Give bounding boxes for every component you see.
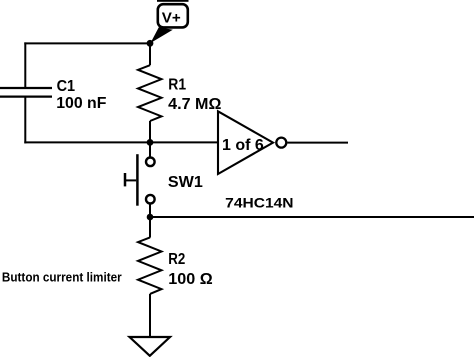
- wire middle horizontal: [24, 141, 218, 143]
- svg-text:1 of 6: 1 of 6: [222, 137, 264, 154]
- node V+ junction: [147, 40, 154, 47]
- node middle junction: [147, 139, 154, 146]
- ground: [130, 337, 171, 356]
- svg-text:100 nF: 100 nF: [56, 95, 106, 112]
- wire left vertical upper: [24, 42, 26, 88]
- svg-text:R1: R1: [168, 77, 186, 94]
- svg-text:4.7 MΩ: 4.7 MΩ: [168, 96, 221, 113]
- resistor R2: [138, 237, 162, 294]
- svg-text:SW1: SW1: [168, 174, 203, 191]
- switch SW1 plunger cap: [124, 173, 127, 186]
- op-amp inverter U1 triangle: [218, 111, 273, 174]
- svg-text:Button current limiter: Button current limiter: [2, 270, 122, 285]
- power flag V+ tail: [151, 27, 173, 43]
- switch SW1 top contact: [146, 158, 155, 167]
- wire node to R2: [149, 217, 151, 238]
- wire R2 to ground: [149, 294, 151, 336]
- svg-text:C1: C1: [57, 78, 76, 95]
- power flag V+ top bar (cut-off shape above label): [157, 0, 189, 2]
- wire left vertical lower: [24, 97, 26, 144]
- wire switch to bottom node: [149, 204, 151, 218]
- wire inverter output: [287, 142, 348, 144]
- svg-text:R2: R2: [168, 251, 185, 268]
- switch SW1 bottom contact: [146, 195, 155, 204]
- svg-text:V+: V+: [162, 10, 181, 27]
- node bottom junction: [147, 214, 154, 221]
- wire R1 to middle node: [149, 121, 151, 143]
- power flag V+ box: [158, 4, 188, 27]
- resistor R1: [138, 65, 162, 121]
- wire top horizontal: [24, 42, 150, 44]
- inverter output bubble: [276, 138, 286, 148]
- wire bottom horizontal: [150, 216, 474, 218]
- svg-text:100 Ω: 100 Ω: [168, 271, 213, 288]
- wire V+ to R1: [149, 43, 151, 65]
- svg-text:74HC14N: 74HC14N: [225, 195, 293, 211]
- capacitor C1: [0, 88, 52, 97]
- switch SW1 actuator bar: [136, 154, 139, 206]
- switch SW1 plunger: [125, 179, 136, 181]
- wire middle node to switch: [149, 142, 151, 157]
